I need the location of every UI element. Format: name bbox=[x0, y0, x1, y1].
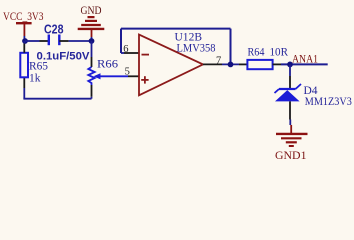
power port VCC_3V3 bbox=[3, 11, 44, 36]
svg-text:GND1: GND1 bbox=[275, 150, 307, 162]
pin 5 of U12B bbox=[128, 75, 139, 77]
resistor R64 bbox=[247, 47, 288, 70]
wire feedback top bbox=[121, 28, 231, 30]
zener diode D4 bbox=[275, 84, 353, 108]
node junction J1 bbox=[22, 38, 28, 44]
wire J2 down to R66 bbox=[91, 41, 93, 57]
wire VCC stem to node bbox=[23, 36, 25, 41]
svg-text:7: 7 bbox=[216, 55, 221, 66]
svg-text:GND: GND bbox=[81, 5, 102, 17]
wire D4 to GND1 bbox=[289, 101, 291, 119]
node junction J4 bbox=[287, 62, 293, 68]
wire R66 bottom leg bbox=[91, 97, 93, 99]
node junction J3 bbox=[228, 62, 234, 68]
capacitor C28 bbox=[44, 23, 64, 46]
wire pin7 to R64 bbox=[222, 63, 239, 65]
pin C28 left bbox=[40, 40, 49, 42]
wire up to R65 bottom bbox=[23, 88, 25, 99]
pin 6 of U12B bbox=[124, 52, 139, 54]
svg-text:R64: R64 bbox=[248, 47, 265, 59]
wire R64 to ANA1 end bbox=[281, 63, 328, 65]
pin R65 top bbox=[23, 44, 25, 53]
svg-text:C28: C28 bbox=[44, 23, 64, 37]
pin R64 right bbox=[273, 63, 281, 65]
wire C28 to J2 bbox=[69, 40, 92, 42]
svg-text:1k: 1k bbox=[29, 72, 41, 84]
svg-text:10R: 10R bbox=[270, 47, 289, 59]
wire J1 down to R65 top bbox=[23, 41, 25, 44]
pin D4 top bbox=[289, 76, 291, 89]
svg-text:R66: R66 bbox=[97, 59, 118, 71]
pin C28 right bbox=[59, 40, 68, 42]
wire feedback right vertical bbox=[230, 29, 232, 65]
svg-text:R65: R65 bbox=[29, 60, 48, 72]
power port GND (top) bbox=[78, 5, 105, 37]
wire D4 to GND1 stem bbox=[289, 120, 291, 126]
pin R66 bottom bbox=[91, 85, 93, 97]
pin R66 top bbox=[91, 57, 93, 67]
svg-text:LMV358: LMV358 bbox=[177, 43, 216, 55]
potentiometer R66 bbox=[88, 59, 128, 86]
wire J4 down to D4 bbox=[289, 64, 291, 76]
svg-text:6: 6 bbox=[123, 44, 128, 55]
wire GND stem to J2 bbox=[91, 37, 93, 41]
node junction J2 bbox=[89, 38, 95, 44]
svg-text:D4: D4 bbox=[304, 85, 318, 97]
wire feedback left vertical bbox=[120, 29, 122, 53]
op-amp U12B bbox=[139, 31, 216, 95]
pin R65 bottom bbox=[23, 77, 25, 88]
wire bottom horizontal bbox=[23, 98, 91, 100]
pin 7 of U12B (output) bbox=[203, 63, 222, 65]
wire J1 to C28 left plate bbox=[25, 40, 40, 42]
resistor R65 bbox=[20, 53, 48, 85]
svg-text:5: 5 bbox=[125, 66, 130, 77]
power port GND1 bbox=[275, 125, 308, 162]
svg-text:VCC_3V3: VCC_3V3 bbox=[3, 11, 44, 23]
wire stub to pin 6 bbox=[121, 52, 124, 54]
pin R64 left bbox=[239, 63, 247, 65]
svg-text:MM1Z3V3: MM1Z3V3 bbox=[305, 96, 352, 108]
svg-text:ANA1: ANA1 bbox=[292, 53, 318, 65]
